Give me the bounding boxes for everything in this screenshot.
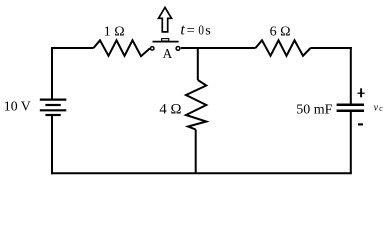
- wire right vertical upper: [350, 47, 352, 104]
- wire bottom lead of R4: [195, 130, 197, 174]
- svg-text:v: v: [374, 102, 379, 113]
- capacitor C1 bottom plate: [337, 110, 364, 113]
- svg-text:A: A: [163, 46, 173, 61]
- battery V1 plate short bottom: [45, 114, 60, 116]
- battery V1 plate long top: [40, 98, 67, 100]
- switch button: [162, 39, 169, 41]
- wire top middle-right horizontal: [181, 47, 256, 49]
- wire top-left horizontal: [51, 47, 94, 49]
- wire top-right horizontal: [311, 47, 352, 49]
- switch right terminal: [176, 47, 180, 51]
- svg-text:6 Ω: 6 Ω: [270, 24, 291, 39]
- capacitor plus sign: [358, 92, 365, 94]
- switch opening arrow: [159, 7, 172, 32]
- resistor R6 6ohm zigzag: [256, 40, 311, 56]
- capacitor C1 top plate: [337, 104, 364, 107]
- switch blade bar: [153, 41, 179, 43]
- node junction top of R4: [197, 48, 199, 80]
- svg-text:50 mF: 50 mF: [296, 103, 332, 118]
- resistor R1 1ohm zigzag: [94, 40, 150, 56]
- svg-text:4 Ω: 4 Ω: [159, 101, 181, 117]
- wire right vertical lower: [350, 111, 352, 174]
- wire left vertical upper: [51, 47, 53, 100]
- battery V1 plate short mid: [45, 104, 60, 106]
- capacitor minus sign: [358, 123, 363, 125]
- switch left terminal: [150, 47, 154, 51]
- wire bottom horizontal: [51, 172, 352, 174]
- svg-text:1 Ω: 1 Ω: [104, 24, 125, 39]
- resistor R4 4ohm zigzag vertical: [186, 80, 206, 130]
- svg-text:10 V: 10 V: [4, 99, 31, 114]
- battery V1 plate long mid: [40, 109, 67, 111]
- svg-text:c: c: [379, 104, 383, 113]
- wire left vertical lower: [51, 115, 53, 174]
